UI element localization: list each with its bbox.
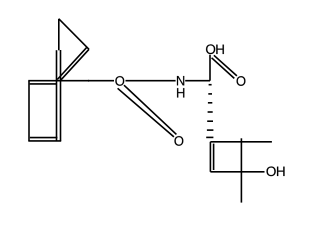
wire: chain O to N <box>126 80 176 82</box>
wire: cyclobutene left edge outer <box>209 142 211 172</box>
atom H on N <box>177 88 184 97</box>
wire: long outer vertical ring right edge <box>60 50 62 141</box>
wire: cyclobutene top edge + right methyl <box>210 141 272 143</box>
wire: cyclobutadiene ring left edge <box>28 81 30 141</box>
wire: carbamate C=O inner line <box>118 88 174 137</box>
atom H of acid OH <box>216 45 224 54</box>
wire: ring inner bottom double-bond line <box>30 137 58 139</box>
wire: cyclobutene right edge + methyl down <box>240 138 242 202</box>
atom O carbamate carbonyl <box>174 136 183 146</box>
wire: acid C=O line 2 <box>212 58 235 79</box>
wire: cyclobutene left edge inner double-bond line <box>213 144 215 170</box>
atom N <box>177 76 184 85</box>
atom O acid carbonyl <box>237 76 246 86</box>
wire: cyclopropane apex stem vertical <box>58 19 60 51</box>
atom H of ring OH <box>277 167 285 176</box>
wire: triangle edge inner double-bond line <box>57 47 86 79</box>
wire: ring outer bottom edge <box>28 140 61 142</box>
node: chain vertex dot <box>88 80 90 82</box>
atom O of ring OH <box>267 166 276 176</box>
wire: ring inner top double-bond line <box>30 83 57 85</box>
wire: cyclobutene bottom edge + bond to OH <box>210 171 264 173</box>
wire: chain N to C <box>185 80 210 82</box>
wire: acid C=O line 1 <box>214 55 237 76</box>
hashed stereo bond wedge <box>206 85 213 138</box>
wire: triangle edge apex to right vertex <box>59 19 89 50</box>
wire: long inner vertical double-bond line <box>56 50 58 141</box>
wire: carbamate C=O outer line <box>124 85 176 134</box>
wire: ring top edge + chain bond to O <box>28 80 114 82</box>
wire: C-OH bond vertical <box>209 55 211 81</box>
atom O of acid OH <box>206 44 215 54</box>
wire: triangle edge outer vertex to junction <box>61 49 89 80</box>
atom O ester <box>115 76 124 86</box>
